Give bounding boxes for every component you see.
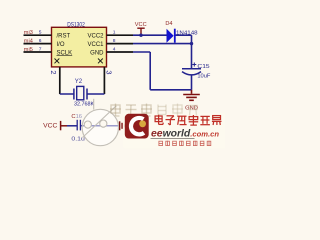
svg-text:6: 6 bbox=[39, 38, 42, 44]
svg-text:C15: C15 bbox=[197, 64, 210, 70]
svg-text:C16: C16 bbox=[71, 114, 82, 120]
svg-text:2: 2 bbox=[49, 70, 58, 74]
svg-text:5: 5 bbox=[39, 30, 42, 36]
svg-text:D4: D4 bbox=[165, 21, 172, 27]
svg-text:10uF: 10uF bbox=[197, 74, 210, 80]
svg-text:mi3: mi3 bbox=[24, 30, 33, 36]
svg-text:1: 1 bbox=[113, 30, 116, 36]
svg-text:3: 3 bbox=[104, 70, 113, 74]
svg-text:/RST: /RST bbox=[57, 34, 71, 40]
svg-text:SCLK: SCLK bbox=[57, 50, 73, 56]
svg-text:GND: GND bbox=[90, 50, 104, 56]
svg-text:8: 8 bbox=[113, 38, 116, 44]
svg-text:I/O: I/O bbox=[57, 42, 65, 48]
svg-text:mi4: mi4 bbox=[24, 38, 33, 44]
svg-text:1N4148: 1N4148 bbox=[176, 30, 198, 36]
svg-text:VCC2: VCC2 bbox=[87, 34, 104, 40]
svg-text:VCC1: VCC1 bbox=[87, 42, 104, 48]
svg-text:DS1302: DS1302 bbox=[67, 22, 85, 28]
svg-text:Y2: Y2 bbox=[75, 79, 83, 85]
svg-text:eeworld.com.cn: eeworld.com.cn bbox=[151, 129, 219, 140]
svg-text:VCC: VCC bbox=[43, 124, 58, 130]
svg-text:32.768K: 32.768K bbox=[74, 102, 94, 108]
svg-text:7: 7 bbox=[39, 46, 42, 52]
svg-text:4: 4 bbox=[113, 46, 116, 52]
svg-text:VCC: VCC bbox=[135, 22, 147, 28]
svg-text:mi5: mi5 bbox=[24, 47, 33, 53]
